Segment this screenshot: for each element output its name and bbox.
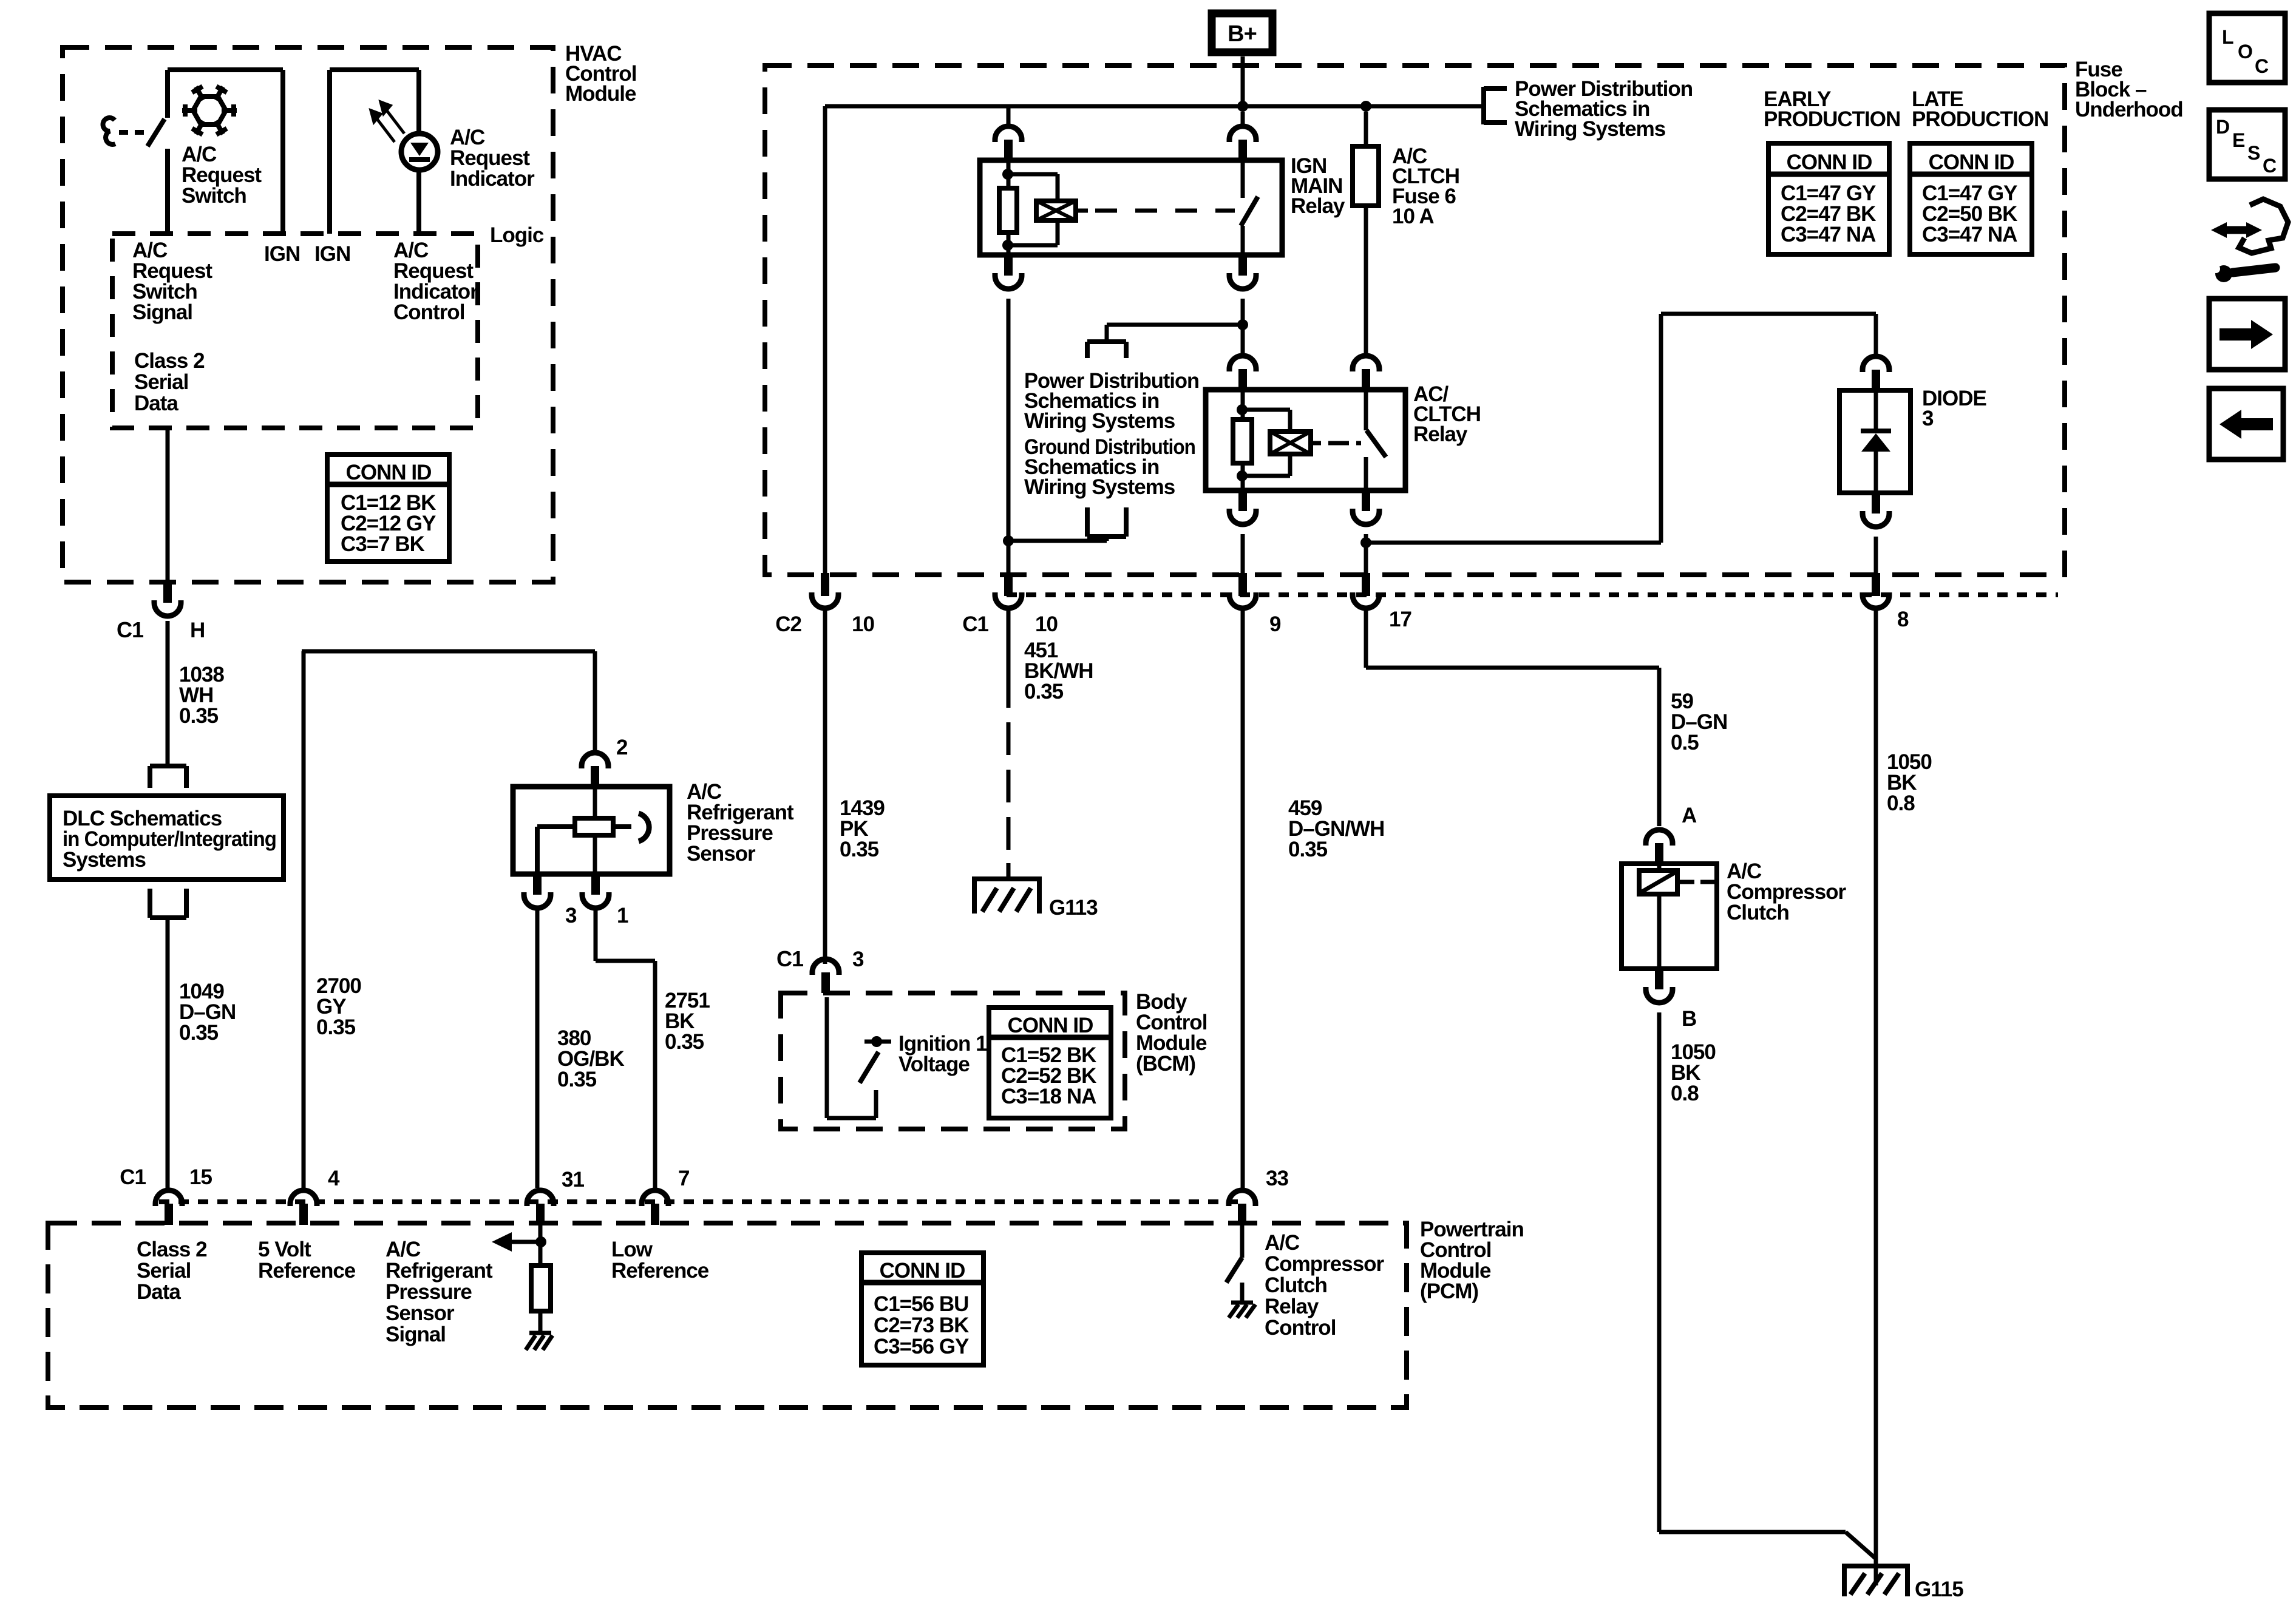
wire rail to C2 pin — [823, 106, 827, 573]
PCM C1 label — [120, 1165, 146, 1189]
svg-text:Relay: Relay — [1265, 1295, 1319, 1318]
Body Control Module label — [1136, 990, 1207, 1076]
svg-text:10: 10 — [1035, 612, 1058, 636]
BCM ignition wire — [827, 997, 876, 1118]
wire 1050 BK from clutch — [1659, 1012, 1876, 1559]
svg-text:Low: Low — [611, 1238, 653, 1261]
svg-text:IGN: IGN — [264, 242, 300, 266]
Power Distribution Schematics note (top) — [1515, 77, 1693, 141]
wire label 1049 D-GN 0.35 — [179, 980, 236, 1045]
adjust icon double arrow — [2211, 222, 2262, 238]
svg-text:CONN ID: CONN ID — [1787, 151, 1872, 174]
connector pin 1 sensor — [582, 874, 609, 908]
AC relay coil resistor — [1233, 419, 1252, 463]
svg-text:Signal: Signal — [132, 300, 192, 324]
wire 2700 GY — [302, 651, 595, 1188]
Class 2 Serial Data label (HVAC) — [134, 349, 205, 415]
pin 7 label — [678, 1167, 689, 1190]
wire 59 D-GN — [1366, 609, 1659, 826]
svg-text:C: C — [2255, 55, 2269, 77]
G113 ground symbol — [972, 863, 1042, 914]
svg-text:PRODUCTION: PRODUCTION — [1764, 107, 1900, 131]
svg-text:Compressor: Compressor — [1265, 1252, 1385, 1276]
IGN pin label 2 — [314, 242, 350, 266]
svg-text:1: 1 — [617, 904, 628, 927]
fuse block pin 17 — [1353, 573, 1379, 608]
pin 4 label — [328, 1167, 340, 1190]
svg-text:C: C — [2263, 155, 2277, 177]
svg-text:CONN ID: CONN ID — [1929, 151, 2014, 174]
A/C Request Switch box — [168, 70, 283, 234]
Class 2 Serial Data label (PCM) — [137, 1238, 207, 1304]
LATE CONN ID table — [1910, 143, 2032, 254]
svg-text:S: S — [2247, 142, 2260, 164]
svg-text:8: 8 — [1897, 608, 1909, 631]
pin B label — [1682, 1007, 1696, 1031]
IGN MAIN Relay label — [1291, 154, 1345, 218]
relay coil resistor — [999, 188, 1017, 232]
DESC nav icon — [2209, 110, 2285, 179]
AC relay dashed actuator line — [1311, 441, 1361, 446]
svg-text:10 A: 10 A — [1392, 205, 1434, 228]
svg-text:33: 33 — [1266, 1167, 1288, 1190]
relay coil junction dots — [1002, 169, 1013, 251]
svg-text:2: 2 — [616, 736, 628, 759]
wire relay to C1 pin — [1007, 299, 1011, 573]
DIODE 3 box — [1839, 390, 1911, 493]
svg-text:0.35: 0.35 — [840, 838, 879, 861]
svg-text:H: H — [190, 619, 205, 642]
pin 31 label — [562, 1168, 584, 1192]
G115 ground symbol — [1842, 1566, 1910, 1596]
5 Volt Reference label — [258, 1238, 356, 1283]
pin 8 label — [1897, 608, 1909, 631]
BCM CONN ID table — [989, 1008, 1111, 1118]
BCM C1 pin label — [776, 946, 804, 971]
svg-text:3: 3 — [1922, 407, 1934, 430]
svg-text:CONN ID: CONN ID — [1008, 1014, 1093, 1037]
relay coil wires — [1007, 160, 1011, 255]
pin 9 label — [1269, 612, 1281, 636]
wire diode branch — [1366, 314, 1876, 543]
svg-text:C3=47 NA: C3=47 NA — [1781, 223, 1876, 246]
wire 459 D-GN/WH — [1241, 609, 1245, 1188]
svg-text:C1: C1 — [776, 946, 804, 971]
svg-text:Reference: Reference — [258, 1259, 356, 1283]
svg-text:Wiring Systems: Wiring Systems — [1515, 117, 1666, 141]
junction dot B+ — [1237, 101, 1248, 112]
wire 451 BK/WH dashed — [1007, 609, 1011, 864]
connector C1 H at HVAC — [154, 582, 181, 616]
AC relay switch — [1366, 390, 1386, 490]
wire label 2751 BK 0.35 — [665, 989, 710, 1054]
LATE PRODUCTION label — [1912, 87, 2048, 131]
fuse block pin 8 — [1863, 573, 1889, 608]
fuse block connector dotted line — [1007, 592, 2058, 597]
wire 1049 — [166, 918, 170, 1188]
PCM pin C1-15 — [155, 1190, 182, 1225]
wire 1038 — [166, 621, 170, 764]
svg-text:Underhood: Underhood — [2075, 98, 2183, 121]
G115 label — [1915, 1578, 1963, 1601]
svg-text:E: E — [2232, 129, 2245, 151]
svg-text:0.35: 0.35 — [316, 1015, 356, 1039]
svg-text:Control: Control — [1265, 1316, 1336, 1340]
svg-text:31: 31 — [562, 1168, 584, 1192]
svg-text:Indicator: Indicator — [450, 167, 535, 191]
svg-text:C2: C2 — [775, 612, 801, 636]
svg-text:A/C: A/C — [385, 1238, 421, 1261]
pin 17 label — [1389, 608, 1411, 631]
wire 1050 BK from diode — [1874, 609, 1878, 1585]
note top bracket — [1087, 342, 1126, 358]
EARLY CONN ID table — [1768, 143, 1889, 254]
svg-text:C1: C1 — [962, 612, 988, 636]
wire label 2700 GY 0.35 — [316, 974, 361, 1039]
svg-text:Serial: Serial — [137, 1259, 191, 1283]
switch wire dashed lead — [119, 130, 150, 135]
svg-text:Class 2: Class 2 — [134, 349, 205, 373]
wire label 459 D-GN/WH 0.35 — [1288, 796, 1384, 861]
svg-text:A: A — [1682, 804, 1697, 827]
BCM dashed box — [781, 993, 1125, 1129]
clutch solenoid symbol — [1639, 864, 1717, 969]
connector clutch pin A — [1646, 830, 1673, 864]
A/C CLTCH Fuse 6 label — [1392, 144, 1459, 228]
wire 380 OG/BK — [535, 907, 540, 1188]
svg-text:D: D — [2216, 116, 2229, 138]
svg-text:C3=47 NA: C3=47 NA — [1922, 223, 2017, 246]
junction dot note link — [1237, 319, 1248, 330]
svg-text:0.35: 0.35 — [665, 1030, 704, 1054]
relay solenoid X box — [1036, 201, 1076, 220]
svg-text:0.35: 0.35 — [557, 1068, 597, 1091]
svg-text:G115: G115 — [1915, 1578, 1963, 1601]
relay dashed actuator line — [1076, 209, 1235, 213]
junction dot fuse branch — [1360, 101, 1371, 112]
A/C Refrigerant Pressure Sensor label — [687, 780, 794, 866]
svg-text:Relay: Relay — [1291, 194, 1345, 218]
PCM pin 4 — [290, 1190, 317, 1225]
svg-text:5 Volt: 5 Volt — [258, 1238, 311, 1261]
A/C Compressor Clutch Relay Control label — [1265, 1231, 1385, 1340]
AC relay solenoid X box — [1270, 432, 1311, 454]
PCM pin 31 — [527, 1190, 554, 1225]
PCM dashed box — [48, 1223, 1407, 1408]
wire label 1439 PK 0.35 — [840, 796, 885, 861]
connector diode bottom — [1863, 493, 1889, 527]
svg-text:C1=56 BU: C1=56 BU — [874, 1292, 968, 1316]
C1 pin label b — [962, 612, 988, 636]
C2 pin label — [775, 612, 801, 636]
svg-text:CONN ID: CONN ID — [880, 1259, 965, 1283]
svg-text:L: L — [2222, 26, 2233, 48]
svg-text:Voltage: Voltage — [898, 1053, 970, 1076]
svg-text:9: 9 — [1269, 612, 1281, 636]
B+ wire stem — [1241, 56, 1245, 103]
svg-text:0.35: 0.35 — [179, 1021, 219, 1045]
svg-text:G113: G113 — [1049, 896, 1098, 920]
A/C Refrigerant Pressure Sensor box — [513, 787, 670, 874]
svg-text:PRODUCTION: PRODUCTION — [1912, 107, 2048, 131]
svg-text:C3=56 GY: C3=56 GY — [874, 1335, 969, 1358]
fuse block pin C2-10 — [812, 573, 838, 608]
fuse block pin 9 — [1229, 573, 1256, 608]
pin 10 label b — [1035, 612, 1058, 636]
wire label 1038 WH 0.35 — [179, 663, 224, 728]
connector BCM pin C1-3 — [812, 959, 839, 993]
HVAC Control Module label — [565, 42, 636, 106]
svg-text:4: 4 — [328, 1167, 340, 1190]
relay coil loop — [1008, 174, 1058, 245]
connector pin 2 sensor — [582, 753, 608, 787]
svg-text:17: 17 — [1389, 608, 1411, 631]
A/C CLTCH fuse 6 — [1353, 112, 1379, 357]
svg-text:Sensor: Sensor — [687, 842, 756, 866]
power distribution callout bracket — [1484, 87, 1507, 124]
A/C Request Switch Signal label — [132, 239, 212, 324]
ignition switch symbol — [860, 1036, 891, 1083]
svg-text:Control: Control — [393, 300, 464, 324]
svg-text:Pressure: Pressure — [385, 1280, 472, 1304]
Ignition 1 Voltage label — [898, 1032, 987, 1076]
wire AC relay out — [1364, 534, 1368, 573]
sensor pin3 lead — [537, 827, 575, 874]
connector IGN relay pin top-right — [1229, 126, 1256, 160]
switch lead curl — [103, 118, 115, 144]
Powertrain Control Module label — [1420, 1218, 1524, 1303]
A/C Compressor Clutch box — [1622, 864, 1717, 969]
svg-text:O: O — [2238, 41, 2252, 63]
A/C Request Indicator label — [450, 126, 535, 191]
svg-text:C3=7 BK: C3=7 BK — [341, 532, 425, 556]
svg-text:Sensor: Sensor — [385, 1301, 455, 1325]
svg-text:Wiring Systems: Wiring Systems — [1024, 409, 1175, 433]
svg-text:C2=73 BK: C2=73 BK — [874, 1314, 969, 1337]
pin 33 label — [1266, 1167, 1288, 1190]
svg-text:Logic: Logic — [490, 223, 544, 247]
svg-text:0.8: 0.8 — [1887, 792, 1915, 815]
svg-text:C1: C1 — [117, 617, 144, 642]
PCM pin33 internal switch — [1226, 1225, 1242, 1303]
connector AC relay pin bottom-right — [1353, 490, 1379, 524]
PCM pin31 ground — [526, 1333, 552, 1350]
wire label 451 BK/WH 0.35 — [1024, 639, 1093, 703]
svg-text:(BCM): (BCM) — [1136, 1052, 1195, 1076]
Fuse Block dashed box — [765, 66, 2065, 575]
junction dot ground note — [1003, 535, 1014, 546]
LED emission arrows — [371, 102, 404, 142]
Low Reference label — [611, 1238, 709, 1283]
DLC Schematics box — [50, 796, 284, 880]
pin 10 label a — [852, 612, 874, 636]
sensor internal resistor — [575, 787, 613, 874]
inline connector bottom bracket — [150, 889, 186, 918]
connector AC relay pin top-right — [1353, 356, 1379, 390]
svg-text:0.5: 0.5 — [1671, 731, 1699, 754]
AC CLTCH relay box — [1206, 390, 1405, 490]
connector IGN relay pin bottom-left — [995, 255, 1022, 289]
wire 459 upper — [1241, 534, 1245, 573]
PCM CONN ID table — [861, 1253, 983, 1365]
A/C Compressor Clutch label — [1727, 859, 1847, 924]
power rail — [825, 104, 1484, 109]
svg-text:0.35: 0.35 — [179, 704, 219, 728]
AC relay coil loop — [1242, 410, 1290, 476]
AC CLTCH Relay label — [1413, 382, 1481, 446]
svg-text:C1: C1 — [120, 1165, 146, 1189]
EARLY PRODUCTION label — [1764, 87, 1900, 131]
svg-text:Clutch: Clutch — [1265, 1273, 1327, 1297]
svg-text:3: 3 — [852, 947, 864, 971]
svg-text:Reference: Reference — [611, 1259, 709, 1283]
PCM pin 7 — [642, 1190, 668, 1225]
DLC Schematics label — [63, 807, 276, 872]
svg-text:7: 7 — [678, 1167, 689, 1190]
C1 label — [117, 617, 144, 642]
connector AC relay pin bottom-left — [1229, 490, 1256, 524]
svg-text:0.8: 0.8 — [1671, 1082, 1699, 1105]
wire label 1050 BK 0.8 right — [1887, 750, 1932, 815]
svg-text:B: B — [1682, 1007, 1696, 1031]
Fuse Block label — [2075, 58, 2183, 121]
HVAC Control Module dashed box — [63, 47, 553, 582]
back arrow nav icon — [2209, 388, 2283, 459]
forward arrow nav icon — [2209, 299, 2285, 370]
connector IGN relay pin top-left — [995, 126, 1022, 160]
pin A label — [1682, 804, 1697, 827]
svg-text:0.35: 0.35 — [1024, 680, 1064, 703]
BCM pin 3 label — [852, 947, 864, 971]
junction dot diode branch — [1360, 537, 1371, 548]
wire 1439 PK — [823, 609, 827, 964]
relay switch — [1241, 160, 1258, 255]
PCM connector dotted line — [159, 1199, 1246, 1204]
sensor pressure arc — [613, 813, 649, 841]
diode symbol — [1861, 390, 1891, 493]
svg-text:Signal: Signal — [385, 1323, 446, 1346]
IGN pin label 1 — [264, 242, 300, 266]
pin 2 label — [616, 736, 628, 759]
A/C Request Switch label — [182, 143, 262, 208]
note link to relay wire — [1107, 325, 1243, 342]
adjust icon wrench — [2212, 265, 2275, 282]
note bottom bracket — [1087, 507, 1126, 537]
adjust icon hand outline — [2239, 199, 2288, 253]
B+ battery box — [1212, 13, 1272, 52]
wire label 380 OG/BK 0.35 — [557, 1026, 624, 1091]
svg-text:Relay: Relay — [1413, 422, 1468, 446]
ground note link — [1008, 537, 1107, 541]
connector diode top — [1863, 356, 1889, 390]
inline connector top bracket — [150, 766, 186, 788]
snowflake symbol — [182, 86, 237, 134]
wire 2751 BK — [596, 907, 655, 1188]
wire label 59 D-GN 0.5 — [1671, 690, 1727, 754]
IGN MAIN relay box — [980, 160, 1282, 255]
svg-text:15: 15 — [189, 1165, 212, 1189]
connector pin 3 sensor — [524, 874, 551, 908]
A/C Request Indicator box — [330, 70, 419, 234]
pin 1 label — [617, 904, 628, 927]
wire class2 inside HVAC — [166, 428, 170, 582]
svg-text:Switch: Switch — [182, 184, 246, 208]
wire diode to pin 8 — [1874, 537, 1878, 573]
svg-text:Systems: Systems — [63, 848, 146, 872]
svg-text:C3=18 NA: C3=18 NA — [1001, 1085, 1096, 1108]
connector AC relay pin top-left — [1229, 356, 1256, 390]
svg-text:IGN: IGN — [314, 242, 350, 266]
AC relay coil junction dots — [1237, 404, 1248, 481]
svg-text:Module: Module — [565, 82, 636, 106]
fuse block pin C1-10 — [995, 573, 1022, 608]
wire label 1050 BK 0.8 left — [1671, 1040, 1716, 1105]
G113 label — [1049, 896, 1098, 920]
svg-text:Data: Data — [137, 1280, 181, 1304]
svg-text:Clutch: Clutch — [1727, 901, 1789, 924]
PCM pin31 internal circuit — [492, 1225, 551, 1333]
H label — [190, 619, 205, 642]
PCM pin33 ground — [1229, 1303, 1255, 1318]
Power Distribution / Ground Distribution note — [1024, 369, 1199, 499]
Logic label — [490, 223, 544, 247]
connector clutch pin B — [1646, 969, 1673, 1003]
A/C Request Indicator Control label — [393, 239, 478, 324]
PCM pin 33 — [1229, 1190, 1255, 1225]
wire relay switch to AC relay coil — [1241, 299, 1245, 357]
svg-text:Class 2: Class 2 — [137, 1238, 207, 1261]
Logic dashed box — [112, 234, 478, 428]
LOC nav icon — [2209, 13, 2285, 83]
A/C request switch blade — [148, 119, 165, 146]
svg-text:Wiring Systems: Wiring Systems — [1024, 475, 1175, 499]
LED diode symbol — [409, 143, 430, 160]
svg-text:10: 10 — [852, 612, 874, 636]
svg-text:Data: Data — [134, 392, 178, 415]
svg-text:3: 3 — [565, 904, 577, 927]
pin 3 label — [565, 904, 577, 927]
svg-text:CONN ID: CONN ID — [346, 461, 432, 484]
connector IGN relay pin bottom-right — [1229, 255, 1256, 289]
wire B+ to relay — [1241, 112, 1245, 127]
LED circle — [401, 134, 438, 170]
svg-text:Refrigerant: Refrigerant — [385, 1259, 493, 1283]
svg-text:(PCM): (PCM) — [1420, 1280, 1478, 1303]
pin 15 label — [189, 1165, 212, 1189]
wire relay left pin — [1007, 106, 1011, 127]
svg-text:A/C: A/C — [1265, 1231, 1300, 1255]
HVAC CONN ID table — [327, 455, 449, 561]
DIODE 3 label — [1922, 387, 1986, 430]
svg-text:B+: B+ — [1228, 21, 1257, 47]
svg-text:Serial: Serial — [134, 370, 188, 394]
svg-text:0.35: 0.35 — [1288, 838, 1328, 861]
AC relay coil wires — [1241, 390, 1245, 490]
A/C Refrigerant Pressure Sensor Signal label — [385, 1238, 493, 1346]
